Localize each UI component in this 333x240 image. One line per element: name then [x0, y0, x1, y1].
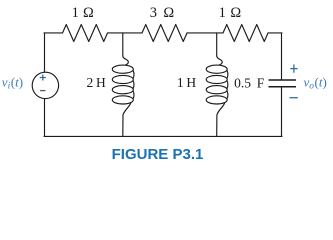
inductor L2 coil right-side bridges — [226, 70, 229, 98]
svg-text:1: 1 — [219, 5, 226, 21]
svg-text:H: H — [186, 75, 196, 90]
wire junction stub node B — [216, 33, 218, 56]
svg-text:H: H — [96, 75, 106, 90]
resistor R2 3ohm zigzag — [142, 25, 187, 42]
inductor L2 1H exit hook — [217, 103, 225, 137]
svg-text:vi(t): vi(t) — [2, 74, 23, 91]
svg-text:F: F — [257, 75, 265, 90]
svg-text:2: 2 — [87, 75, 94, 90]
wire between R2 and R3 — [187, 32, 223, 34]
inductor L2 1H entry hook — [217, 56, 223, 65]
wire capacitor bottom lead — [281, 87, 283, 137]
wire left vertical bottom — [44, 99, 46, 137]
wire between R1 and R2 — [108, 32, 143, 34]
svg-text:1: 1 — [72, 5, 79, 21]
svg-text:Ω: Ω — [83, 5, 94, 21]
capacitor C1 bottom plate — [269, 86, 297, 88]
inductor L1 2H entry hook — [123, 56, 129, 65]
svg-text:Ω: Ω — [230, 5, 241, 21]
svg-text:FIGURE P3.1: FIGURE P3.1 — [112, 146, 204, 163]
resistor R3 1ohm zigzag — [223, 25, 268, 42]
svg-text:1: 1 — [177, 75, 184, 90]
wire capacitor top lead — [281, 33, 283, 80]
wire top-left segment — [44, 32, 63, 34]
svg-text:3: 3 — [150, 5, 157, 21]
inductor L1 coil right-side bridges — [132, 70, 135, 98]
svg-text:vo(t): vo(t) — [304, 74, 327, 91]
capacitor minus sign — [289, 97, 297, 99]
svg-text:Ω: Ω — [163, 5, 174, 21]
wire junction stub node A — [122, 33, 124, 56]
capacitor plus sign — [290, 65, 297, 73]
wire bottom — [44, 135, 282, 137]
voltage source circle — [32, 72, 58, 98]
svg-text:0.5: 0.5 — [234, 75, 251, 90]
source minus sign — [40, 90, 45, 92]
inductor L2 1H coil loops — [206, 65, 227, 73]
resistor R1 1ohm zigzag — [63, 25, 108, 42]
capacitor C1 top plate — [269, 79, 297, 81]
inductor L1 2H exit hook — [123, 103, 131, 137]
inductor L1 2H coil loops — [112, 65, 133, 73]
wire top-right segment — [268, 32, 282, 34]
wire left vertical top — [44, 33, 46, 72]
source plus sign — [40, 75, 46, 81]
